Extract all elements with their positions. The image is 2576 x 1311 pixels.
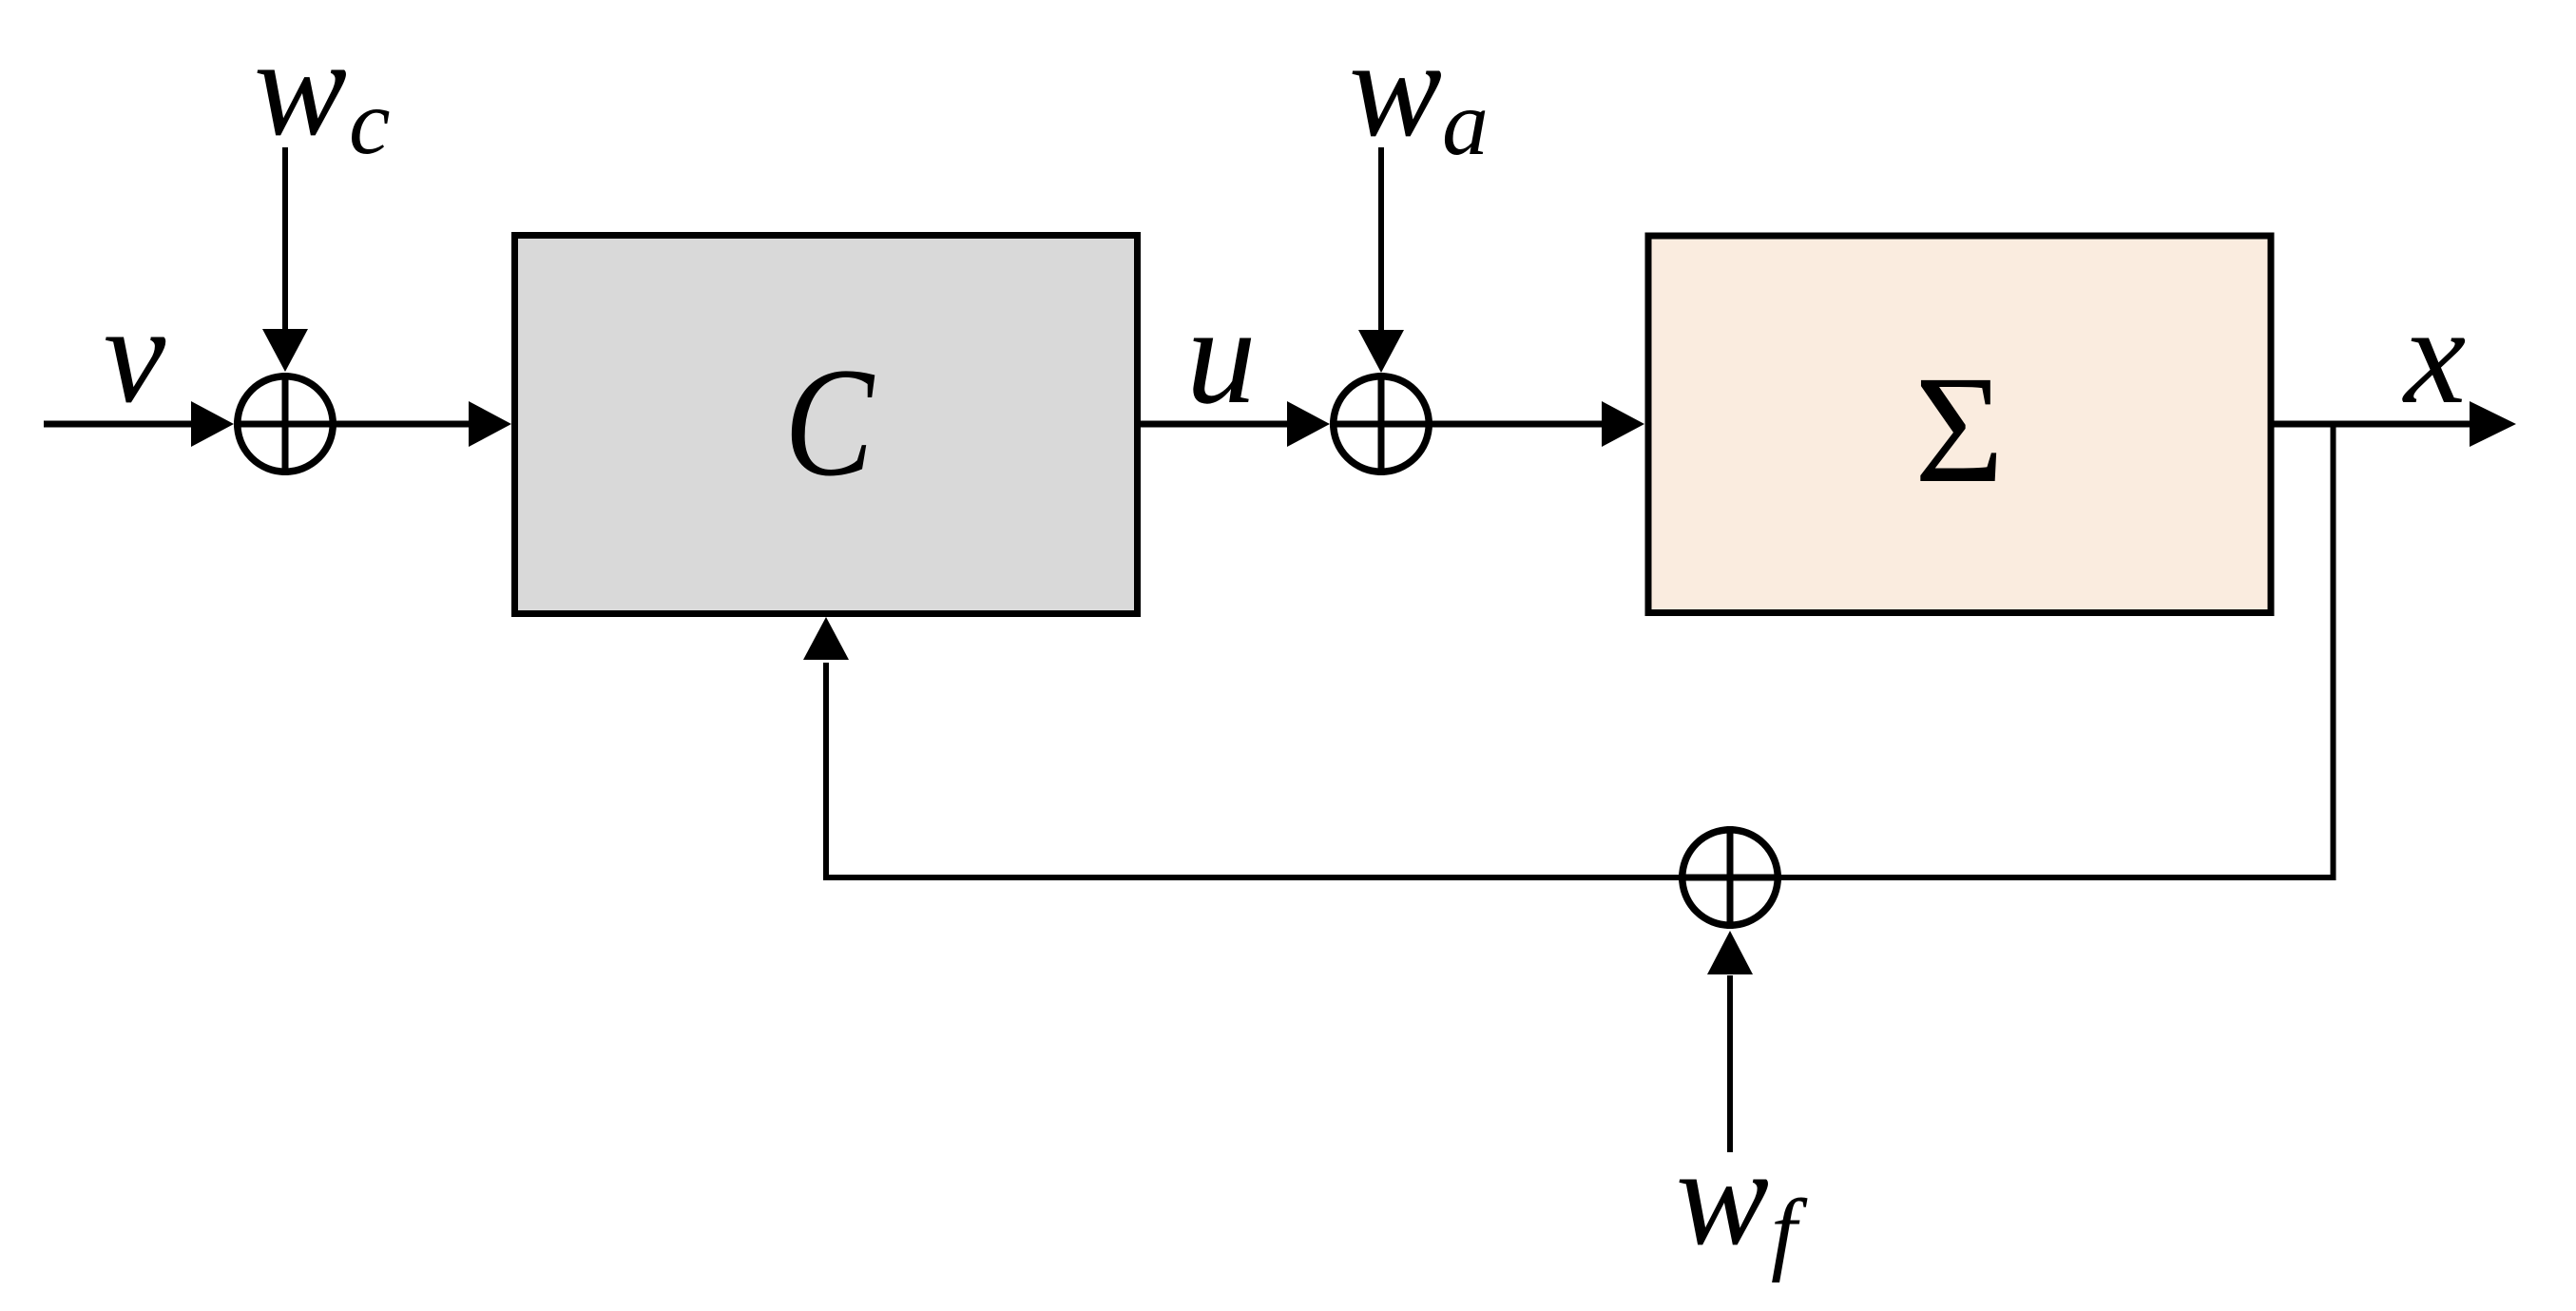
wire x output — [2274, 421, 2470, 428]
svg-text:w: w — [1676, 1119, 1769, 1274]
svg-text:u: u — [1186, 278, 1257, 433]
arrowhead into block C bottom — [803, 617, 849, 660]
wire S2 to block Sigma — [1432, 421, 1604, 428]
wire w_a drop — [1378, 147, 1384, 331]
arrowhead into block C — [469, 401, 511, 447]
arrowhead into summing junction S1 left — [191, 401, 234, 447]
arrowhead into summing junction S3 bottom — [1707, 931, 1753, 974]
wire v input — [44, 421, 193, 428]
summing junction S2 — [1330, 373, 1432, 475]
svg-text:w: w — [254, 10, 347, 164]
summing junction S1 — [234, 373, 336, 475]
svg-text:x: x — [2402, 278, 2466, 433]
wire S1 to block C — [336, 421, 470, 428]
arrowhead into summing junction S1 top — [262, 329, 308, 372]
block Sigma — [1648, 236, 2271, 613]
svg-text:C: C — [784, 337, 875, 509]
arrowhead into summing junction S2 left — [1287, 401, 1330, 447]
wire u: block C to S2 — [1141, 421, 1288, 428]
svg-text:w: w — [1349, 10, 1442, 165]
arrowhead into block Sigma — [1602, 401, 1644, 447]
svg-text:v: v — [104, 277, 166, 432]
wire w_f rise — [1727, 975, 1733, 1152]
arrowhead into summing junction S2 top — [1358, 330, 1404, 373]
wire feedback: S3 left, then up into block C bottom — [826, 663, 1679, 877]
block C — [515, 236, 1138, 614]
svg-text:c: c — [349, 71, 391, 174]
svg-text:Σ: Σ — [1914, 345, 2004, 515]
wire feedback branch: down from output line and left to S3 — [1781, 424, 2334, 877]
wire w_c drop — [282, 147, 288, 330]
summing junction S3 — [1679, 826, 1781, 929]
svg-text:a: a — [1442, 72, 1489, 175]
arrowhead x output — [2470, 401, 2516, 447]
